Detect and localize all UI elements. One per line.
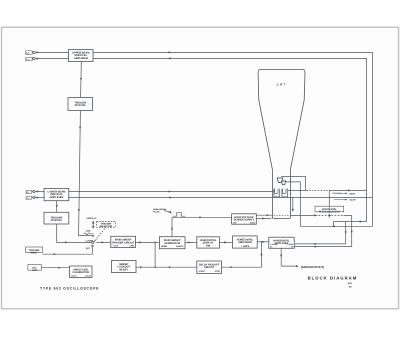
svg-text:LOWER: LOWER (86, 240, 94, 242)
svg-text:HORIZONTALPLATE SELECTOR: HORIZONTALPLATE SELECTOR (319, 208, 340, 213)
svg-text:+ MAG: + MAG (287, 243, 293, 245)
svg-text:LINE: LINE (129, 245, 134, 247)
svg-text:-3150V: -3150V (249, 222, 255, 224)
svg-text:TYPE 502 OSCILLOSCOPE: TYPE 502 OSCILLOSCOPE (40, 287, 99, 291)
svg-text:CRT: CRT (277, 83, 287, 86)
svg-text:NORM: NORM (161, 245, 167, 247)
svg-text:TRIGGERPICKOFF: TRIGGERPICKOFF (51, 216, 63, 222)
svg-text:X1: X1 (270, 246, 272, 248)
svg-text:[SAWTOOTH OUT]: [SAWTOOTH OUT] (301, 266, 324, 269)
svg-text:+ EXT: + EXT (113, 245, 119, 247)
svg-text:TRIGGERSELECTOR: TRIGGERSELECTOR (100, 222, 113, 227)
svg-text:UNBLANKING: UNBLANKING (153, 208, 166, 210)
svg-text:BLOCK DIAGRAM: BLOCK DIAGRAM (308, 276, 358, 281)
svg-text:MAIN SWEEPTRIGGER CIRCUIT: MAIN SWEEPTRIGGER CIRCUIT (112, 238, 135, 244)
svg-text:+ GATE: + GATE (241, 245, 249, 248)
svg-text:CATHODE: CATHODE (332, 193, 341, 195)
svg-text:VOLTS: VOLTS (85, 275, 91, 277)
svg-text:+12.5V: +12.5V (349, 199, 356, 201)
svg-text:SINGLE: SINGLE (176, 245, 183, 247)
svg-text:CAL.OUT: CAL.OUT (32, 266, 37, 271)
svg-text:START: START (199, 270, 206, 272)
svg-text:STOP: STOP (215, 270, 220, 272)
svg-text:LOWER BEAMVERTICALAMPLIFIER: LOWER BEAMVERTICALAMPLIFIER (47, 190, 65, 198)
svg-text:UPPER AC: UPPER AC (86, 217, 96, 219)
svg-text:[−]: [−] (27, 197, 30, 199)
svg-text:HIGH VOLTAGEPOWER SUPPLY: HIGH VOLTAGEPOWER SUPPLY (234, 216, 254, 222)
svg-text:EXT.: EXT. (86, 247, 90, 249)
svg-text:LINE: LINE (86, 230, 91, 232)
svg-text:HORIZONTALAMPLIFIER: HORIZONTALAMPLIFIER (237, 238, 254, 244)
svg-text:UPPER BEAMVERTICALAMPLIFIER: UPPER BEAMVERTICALAMPLIFIER (72, 51, 89, 59)
svg-text:[+]: [+] (27, 191, 30, 193)
svg-text:[−]: [−] (26, 58, 29, 61)
svg-text:AA: AA (349, 286, 352, 288)
svg-text:X5: X5 (291, 246, 293, 248)
svg-text:[+]: [+] (26, 52, 29, 55)
svg-text:+350V: +350V (349, 193, 355, 195)
svg-text:PULSE: PULSE (153, 211, 160, 213)
svg-text:CRT: CRT (233, 222, 237, 224)
svg-text:AMPLITUDECALIBRATOR: AMPLITUDECALIBRATOR (72, 268, 89, 274)
svg-text:+ NORM: + NORM (270, 243, 277, 245)
svg-text:1/61: 1/61 (348, 282, 352, 284)
svg-text:TRIGGERPICKOFF: TRIGGERPICKOFF (74, 101, 86, 107)
svg-text:MAIN SWEEPGENERATOR: MAIN SWEEPGENERATOR (164, 239, 181, 245)
svg-text:VOLTS: VOLTS (71, 275, 77, 277)
